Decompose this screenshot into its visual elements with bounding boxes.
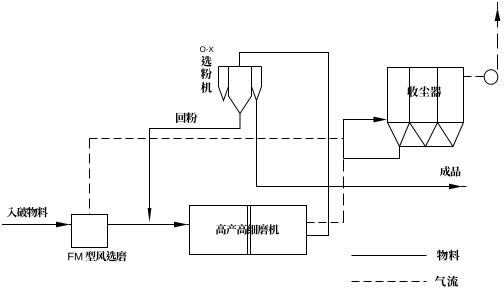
wire: raw material feed line — [2, 224, 58, 226]
wire: mill discharge bucket-elevator riser to classifier — [240, 53, 329, 236]
arrowhead into FM mill — [56, 222, 72, 228]
arrowhead into fine mill — [174, 222, 190, 228]
collector hopper cones — [388, 123, 464, 147]
arrowhead exhaust up — [495, 2, 501, 21]
label: dust collector — [407, 86, 441, 97]
classifier inner right wall — [251, 67, 253, 97]
label: classifier (vertical) — [201, 56, 212, 93]
collector internal dividers — [410, 68, 438, 123]
wire dashed: air riser to collector inlet — [343, 159, 345, 223]
wire dashed: mill air outlet — [307, 222, 344, 224]
classifier outer left wall — [218, 67, 220, 88]
dust collector box — [388, 68, 464, 123]
label: finished product — [440, 166, 461, 176]
wire dashed: air header to collector — [90, 138, 344, 140]
label: incoming crushed material — [7, 207, 48, 217]
classifier center cone — [229, 96, 252, 114]
classifier inner left wall — [228, 67, 230, 97]
legend solid line (material) — [352, 255, 427, 257]
wire: coarse return (hui fen) to mill inlet — [150, 113, 241, 209]
label: high-yield high-fineness mill — [216, 224, 279, 234]
O-X classifier top — [219, 66, 262, 68]
label: FM type air-swept mill — [68, 251, 126, 261]
fine mill internal partition lines — [248, 206, 251, 255]
wire dashed: collector outlet to fan — [464, 76, 485, 78]
classifier right small cone — [252, 87, 262, 101]
legend dashed line (airflow) — [352, 281, 427, 283]
wire: collector inlet — [344, 120, 376, 159]
label legend: material — [437, 250, 460, 261]
collector hopper bottom line — [400, 146, 454, 148]
FM mill box — [72, 215, 108, 248]
fine mill box (high-yield high-fineness mill) — [190, 206, 307, 255]
wire: hopper dust discharge — [344, 147, 400, 159]
wire: FM mill to fine mill — [108, 224, 176, 226]
wire: fines to finished product — [257, 101, 451, 187]
label legend: airflow — [435, 276, 458, 287]
wire dashed: FM mill air riser — [89, 139, 91, 215]
arrowhead down onto mill feed line — [148, 208, 152, 223]
classifier left small cone — [219, 87, 229, 101]
arrowhead into collector — [374, 117, 388, 123]
fan circle — [484, 70, 498, 85]
label: O-X — [200, 46, 214, 52]
label: returned coarse powder — [176, 112, 197, 123]
wire dashed: exhaust stack — [497, 21, 499, 70]
classifier outer right wall — [261, 67, 263, 88]
arrowhead finished product — [449, 184, 467, 190]
